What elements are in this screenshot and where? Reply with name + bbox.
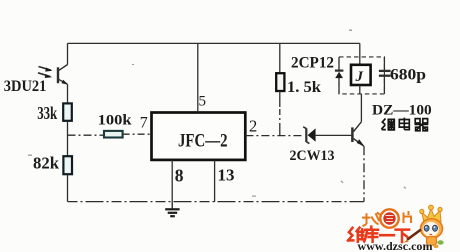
- svg-text:3DU21: 3DU21: [4, 78, 47, 95]
- wire pin 13: [214, 160, 216, 202]
- watermark brush: [403, 230, 421, 243]
- relay enclosure dashed box: [339, 57, 384, 94]
- wire right vertical emitter to bottom rail: [363, 146, 365, 201]
- watermark logo 找: [362, 212, 380, 226]
- wire junction to 100k: [68, 134, 105, 136]
- wire left vertical collector to top rail: [67, 43, 69, 64]
- svg-text:2: 2: [249, 117, 257, 136]
- svg-text:5: 5: [199, 94, 207, 110]
- svg-text:100k: 100k: [98, 113, 133, 129]
- svg-text:2CW13: 2CW13: [290, 148, 335, 164]
- wire pin 5 vertical: [197, 43, 199, 112]
- wire pin 8: [171, 160, 173, 202]
- wire 33k to junction: [67, 121, 69, 156]
- svg-text:J: J: [355, 69, 364, 85]
- wire 82k to bottom rail: [67, 174, 69, 201]
- diode 2CP12 flyback: [335, 57, 344, 94]
- resistor 82k: [63, 156, 72, 174]
- wire collector to relay: [360, 94, 362, 122]
- wire top rail corner down to relay: [359, 43, 361, 64]
- op-amp U1 JFC-2 box: [152, 113, 246, 160]
- svg-text:www.dzsc.com: www.dzsc.com: [358, 239, 433, 252]
- transistor 3DU21 phototransistor: [38, 65, 68, 85]
- wire bottom rail: [68, 201, 365, 203]
- svg-text:DZ—100: DZ—100: [372, 103, 432, 119]
- diode zener 2CW13: [303, 127, 315, 144]
- watermark logo 片: [404, 211, 412, 223]
- watermark mascot: [420, 205, 444, 248]
- label 继电器 relay chinese: [381, 118, 428, 131]
- wire top rail: [68, 42, 360, 44]
- wire zener to transistor base: [316, 134, 352, 136]
- wire 1.5k top: [279, 43, 281, 73]
- transistor Q2: [352, 122, 364, 147]
- relay coil box J: [351, 65, 371, 85]
- wire 1.5k bottom to pin2 node: [279, 91, 281, 136]
- wire emitter to 33k: [67, 84, 69, 103]
- svg-text:1. 5k: 1. 5k: [287, 79, 321, 96]
- svg-text:82k: 82k: [33, 154, 60, 173]
- resistor 100k: [104, 131, 123, 138]
- svg-text:680p: 680p: [390, 67, 426, 84]
- wire pin 2 to zener: [245, 135, 303, 137]
- watermark 维库一下 red chinese: [348, 227, 409, 242]
- svg-text:JFC—2: JFC—2: [178, 131, 228, 152]
- ground: [165, 202, 179, 217]
- scan specks: [28, 30, 406, 197]
- capacitor C 680p: [379, 57, 391, 94]
- wire relay to box bottom: [359, 85, 361, 94]
- svg-text:2CP12: 2CP12: [291, 55, 334, 72]
- wire 100k to pin 7: [123, 133, 152, 135]
- svg-text:33k: 33k: [37, 103, 57, 123]
- watermark logo circle 图: [380, 209, 398, 227]
- svg-text:13: 13: [218, 166, 235, 185]
- svg-text:7: 7: [140, 115, 148, 132]
- resistor R 1.5k: [276, 73, 284, 91]
- resistor 33k: [63, 103, 72, 120]
- svg-text:8: 8: [175, 165, 184, 185]
